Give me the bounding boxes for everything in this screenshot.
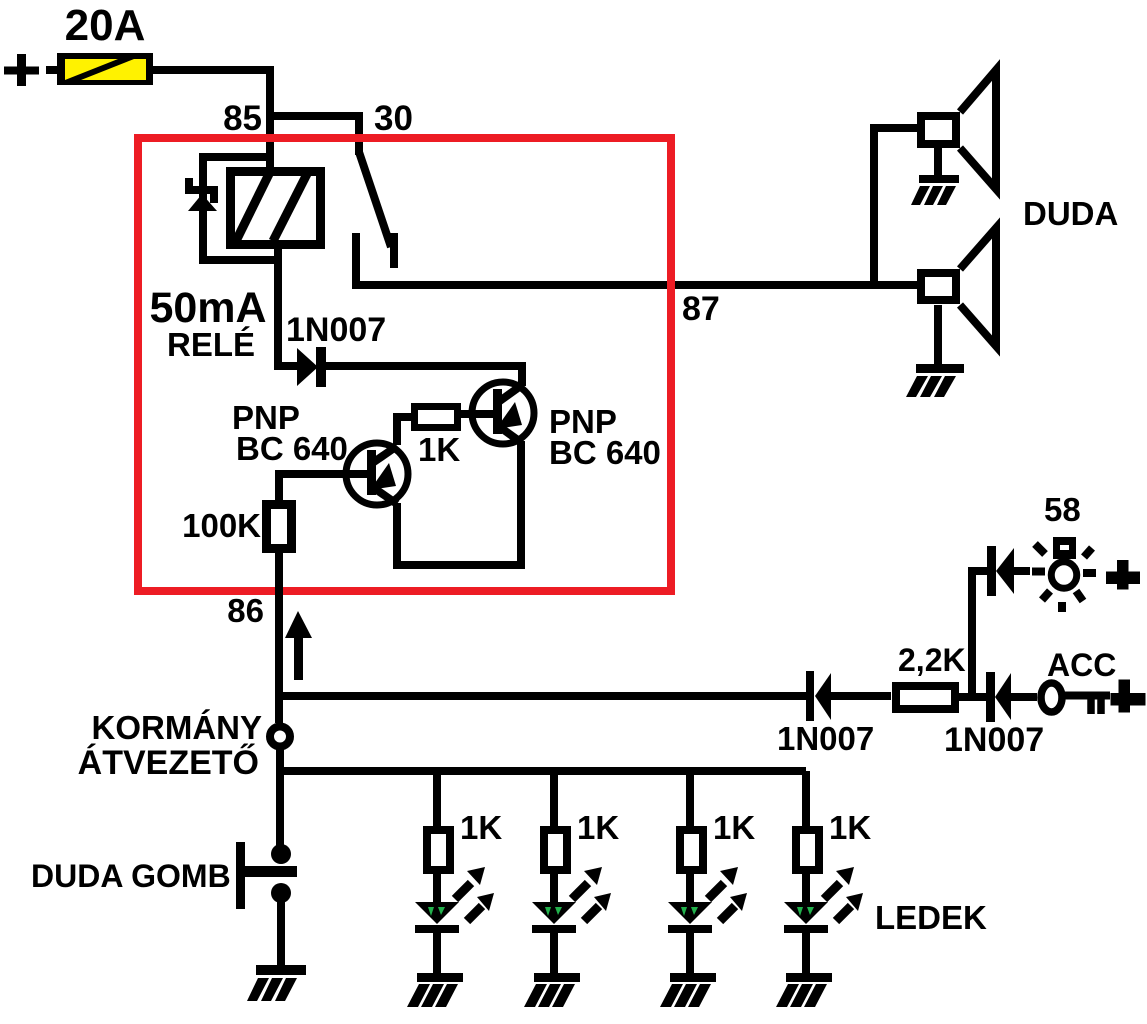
wire diode to lamp	[1014, 567, 1030, 575]
wire Q1 base to 100K node	[279, 474, 367, 500]
resistor 1K LED2	[544, 830, 567, 870]
svg-text:85: 85	[223, 99, 262, 138]
ground under horn2	[906, 364, 964, 397]
svg-text:30: 30	[374, 99, 413, 138]
LED4 arrows	[824, 867, 863, 921]
svg-text:ÁTVEZETŐ: ÁTVEZETŐ	[78, 744, 259, 782]
svg-text:1K: 1K	[829, 809, 871, 846]
svg-text:2,2K: 2,2K	[898, 642, 966, 678]
relay coil	[231, 172, 321, 245]
wire button to ground	[277, 899, 285, 967]
LED3 arrows	[708, 867, 747, 921]
wire stub from + to fuse	[46, 66, 58, 74]
ignition key ACC	[1041, 683, 1110, 714]
svg-text:50mA: 50mA	[149, 284, 266, 332]
switch fixed contact 87 wire to horns	[356, 233, 917, 285]
svg-text:87: 87	[682, 290, 720, 328]
wire LED1 to ground	[433, 933, 441, 975]
wire coil bottom down to diode	[278, 249, 299, 366]
wire resistor to LED2	[550, 874, 558, 904]
svg-text:DUDA GOMB: DUDA GOMB	[31, 858, 231, 894]
horn button DUDA GOMB	[236, 842, 297, 909]
svg-text:RELÉ: RELÉ	[167, 326, 255, 363]
resistor R3 2,2K	[896, 686, 955, 709]
wire LED branch 3 drop	[686, 771, 694, 828]
wire node up to lamp diode	[972, 571, 987, 697]
wire resistor to LED1	[433, 874, 441, 904]
svg-text:100K: 100K	[182, 507, 261, 544]
ground under LED4	[776, 973, 832, 1007]
lamp rays	[1032, 544, 1096, 612]
wire resistor left to Q1 emitter	[397, 417, 411, 445]
wire LED3 to ground	[686, 933, 694, 975]
ground under LED3	[660, 973, 716, 1007]
horn 2 (DUDA)	[921, 228, 996, 346]
svg-text:58: 58	[1044, 491, 1081, 528]
arrow up current direction	[285, 611, 312, 680]
LED1 arrows	[455, 867, 494, 921]
svg-text:ACC: ACC	[1047, 647, 1116, 683]
wire diode to Q2 emitter corner	[326, 366, 522, 386]
svg-text:86: 86	[227, 592, 264, 629]
diode D3 1N007 to lamp (points left)	[987, 546, 1014, 596]
ground under button	[247, 965, 306, 1001]
wire flyback loop around coil	[203, 157, 281, 260]
node + battery positive terminal	[4, 54, 39, 86]
plus terminal ACC	[1111, 680, 1146, 713]
ground under horn1	[911, 175, 959, 205]
ground under LED2	[524, 973, 580, 1007]
horn 1 (DUDA)	[921, 70, 996, 189]
resistor 1K LED3	[680, 830, 703, 870]
wire 2,2K to node and diode D4	[959, 693, 986, 701]
svg-text:DUDA: DUDA	[1023, 195, 1118, 232]
plus terminal lamp	[1106, 560, 1140, 590]
svg-text:1K: 1K	[713, 809, 755, 846]
LED bus wire	[280, 767, 806, 775]
resistor 1K LED4	[796, 830, 819, 870]
ground under LED1	[407, 973, 463, 1007]
wire horn1 branch	[874, 128, 917, 285]
wire LED4 to ground	[802, 933, 810, 975]
svg-text:1K: 1K	[577, 809, 619, 846]
LED D6	[532, 902, 576, 933]
wire diode to key	[1011, 693, 1037, 701]
LED2 arrows	[572, 867, 611, 921]
diode D1 1N007 (points right)	[297, 347, 326, 387]
wire diode to 2,2K	[831, 692, 891, 700]
svg-text:1N007: 1N007	[944, 721, 1044, 759]
lamp 58 bulb	[1051, 537, 1077, 588]
svg-text:1K: 1K	[460, 809, 502, 846]
resistor 1K LED1	[427, 830, 450, 870]
wire fuse to corner and down to relay coil	[153, 70, 270, 171]
LED D7	[668, 902, 712, 933]
svg-text:1K: 1K	[418, 431, 460, 468]
switch arm (relay contact)	[359, 152, 391, 247]
wire connector down to LED bus and button	[276, 747, 284, 849]
wire 85 to 30 switch	[270, 116, 359, 155]
connector circle KORMANY ATVEZETO	[270, 727, 290, 747]
wire LED2 to ground	[550, 933, 558, 975]
wire 100K down to connector	[275, 553, 283, 723]
wire horn1 to ground	[934, 148, 942, 176]
svg-text:1N007: 1N007	[286, 311, 386, 349]
transistor Q2 PNP BC640	[472, 382, 534, 444]
switch arm end tick	[390, 233, 398, 268]
diode D2 1N007 (points left)	[814, 672, 832, 721]
svg-text:BC 640: BC 640	[236, 430, 348, 467]
diode D4 1N007 to ACC (points left)	[986, 672, 1011, 722]
svg-text:20A: 20A	[65, 1, 146, 50]
flyback zener diode across coil	[185, 178, 218, 211]
wire LED branch 1 drop	[433, 771, 441, 828]
svg-text:1N007: 1N007	[777, 720, 874, 757]
transistor Q1 PNP BC640	[346, 443, 408, 505]
wire Q2 collector down to bus and Q1 collector	[397, 441, 521, 565]
wire horn2 to ground	[934, 305, 942, 365]
wire resistor to LED4	[802, 874, 810, 904]
wire LED branch 4 drop	[802, 771, 810, 828]
wire LED branch 2 drop	[550, 771, 558, 828]
resistor R2 1K between transistors	[415, 407, 458, 428]
wire resistor to LED3	[686, 874, 694, 904]
svg-text:BC 640: BC 640	[549, 434, 661, 471]
resistor R1 100K	[267, 505, 292, 549]
wire resistor right to Q2 base	[461, 410, 496, 418]
svg-text:LEDEK: LEDEK	[875, 899, 987, 936]
fuse F1	[57, 53, 153, 85]
svg-text:KORMÁNY: KORMÁNY	[92, 709, 263, 746]
LED D5	[415, 902, 459, 933]
wire junction to ACC branch	[279, 692, 806, 700]
red frame around relay module	[138, 138, 671, 591]
LED D8	[784, 902, 828, 933]
